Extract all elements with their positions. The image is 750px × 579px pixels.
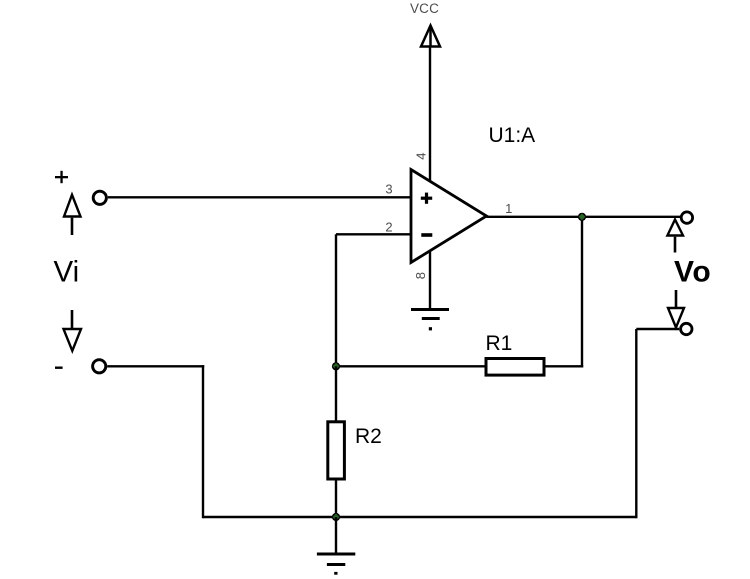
svg-text:1: 1 xyxy=(505,201,512,216)
arrow up (Vi) xyxy=(64,195,81,235)
svg-text:R1: R1 xyxy=(486,332,513,355)
wire VCC pin 4 xyxy=(429,30,431,181)
svg-text:Vo: Vo xyxy=(674,256,711,289)
ground bottom xyxy=(317,554,355,575)
resistor R2 xyxy=(328,422,345,479)
label + (input polarity) xyxy=(55,171,68,183)
svg-text:8: 8 xyxy=(413,272,428,279)
op-amp U1 triangle xyxy=(411,170,487,263)
ground under op-amp xyxy=(411,310,449,331)
wire junction to R2 xyxy=(335,366,337,422)
node junction bottom rail xyxy=(332,513,340,521)
arrow down (Vo) xyxy=(668,290,684,328)
wire pin 8 to ground xyxy=(429,251,431,309)
wire - terminal right xyxy=(107,365,204,367)
wire output xyxy=(487,216,681,218)
arrow up (Vo) xyxy=(667,220,683,253)
node junction inverting/R1/R2 xyxy=(332,362,340,370)
wire feedback vertical right xyxy=(581,217,583,368)
terminal + input xyxy=(93,191,106,204)
wire left vertical down xyxy=(202,365,204,518)
wire right vertical down xyxy=(635,329,637,518)
op-amp - marking xyxy=(421,233,432,237)
op-amp + marking xyxy=(421,193,432,204)
svg-text:4: 4 xyxy=(414,152,429,159)
power symbol VCC arrow xyxy=(421,26,440,47)
svg-text:3: 3 xyxy=(385,181,392,196)
svg-text:R2: R2 xyxy=(355,425,382,448)
wire feedback vertical left xyxy=(335,234,337,366)
wire R1 to feedback corner xyxy=(544,365,583,367)
arrow down (Vi) xyxy=(64,310,82,351)
wire + input to pin 3 xyxy=(108,196,411,198)
wire Vo lower to corner xyxy=(636,328,679,330)
wire junction to R1 xyxy=(336,365,486,367)
resistor R1 xyxy=(486,359,544,376)
wire bottom rail xyxy=(203,516,636,518)
terminal Vo lower xyxy=(681,323,692,334)
terminal - input xyxy=(93,360,106,373)
wire bottom node to ground xyxy=(335,517,337,553)
svg-text:Vi: Vi xyxy=(54,255,80,288)
label - (input polarity) xyxy=(55,367,63,369)
node junction output/feedback xyxy=(578,213,586,221)
svg-text:VCC: VCC xyxy=(410,1,439,16)
wire R2 to bottom rail xyxy=(335,479,337,517)
wire inverting input pin 2 xyxy=(336,233,411,235)
svg-text:2: 2 xyxy=(385,219,392,234)
terminal Vo upper xyxy=(681,212,692,223)
svg-text:U1:A: U1:A xyxy=(489,124,536,147)
